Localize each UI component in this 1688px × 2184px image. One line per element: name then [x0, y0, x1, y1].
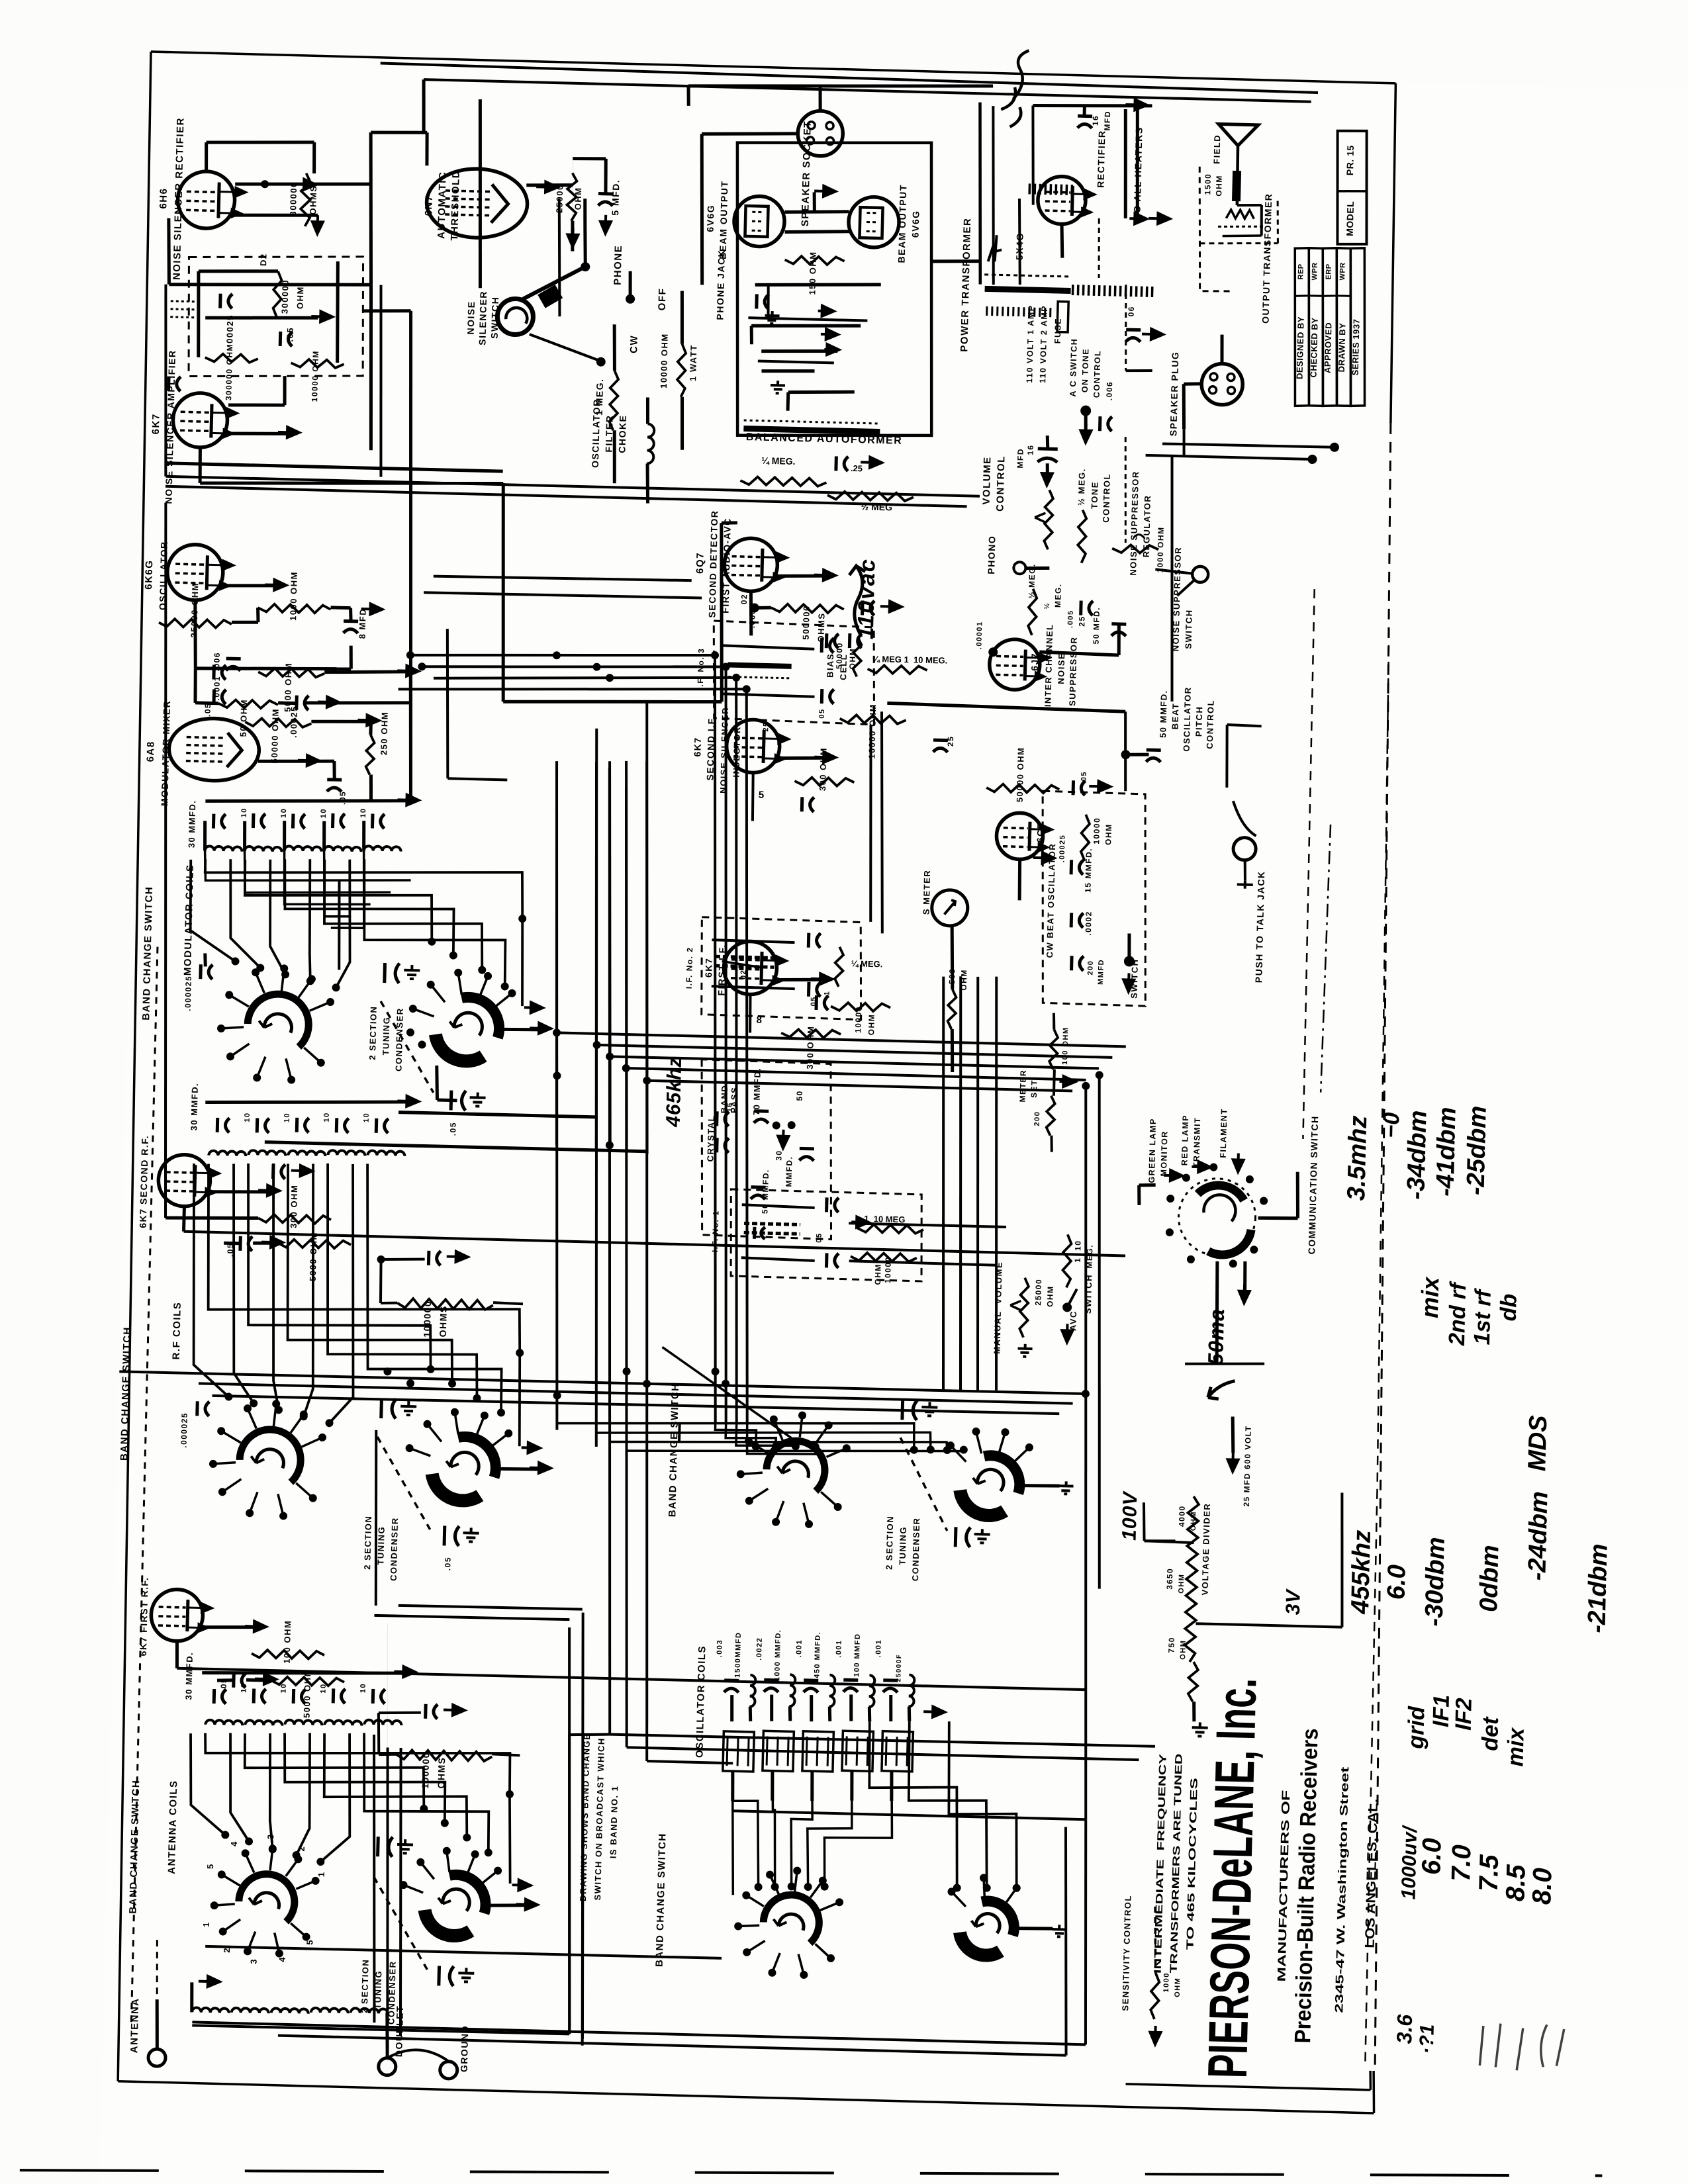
svg-text:10000: 10000 — [1092, 817, 1102, 844]
tube 6A8 modulator mixer — [168, 717, 259, 782]
svg-text:CONTROL: CONTROL — [1092, 350, 1103, 398]
svg-text:2: 2 — [222, 1948, 232, 1953]
resistor 100000 OHMS RF — [427, 1251, 431, 1265]
svg-text:OHM: OHM — [295, 286, 306, 309]
svg-text:BEAT: BEAT — [1170, 703, 1180, 730]
coupling dots — [170, 301, 197, 318]
svg-text:D2: D2 — [258, 253, 268, 266]
wire — [167, 218, 170, 285]
svg-text:RED LAMP: RED LAMP — [1180, 1115, 1190, 1166]
svg-text:.005: .005 — [1066, 610, 1075, 628]
output transformer windings — [1226, 210, 1254, 219]
resistor 5000 OHM — [271, 1676, 344, 1686]
wires osc coils to switch — [732, 1771, 733, 1801]
wire — [717, 523, 726, 702]
svg-text:10: 10 — [323, 1112, 331, 1122]
vertical bus bundle mid2 — [696, 655, 734, 1423]
svg-text:OHMS: OHMS — [438, 1305, 449, 1337]
rotary switch antenna section 1 — [238, 1874, 295, 1922]
svg-text:50 MMFD.: 50 MMFD. — [760, 1169, 771, 1214]
wire — [258, 760, 311, 762]
svg-text:10000: 10000 — [853, 1006, 863, 1033]
modulator coils row — [205, 846, 242, 851]
svg-text:NOISE: NOISE — [1056, 653, 1066, 684]
svg-text:10: 10 — [359, 807, 367, 818]
trimmer mid — [900, 1400, 904, 1420]
svg-text:OHM: OHM — [1179, 1640, 1188, 1660]
resistor 50000 OHM right — [986, 784, 1059, 794]
handwriting faint dashes bottom right — [1479, 2023, 1564, 2071]
resistor 25000 OHM — [567, 173, 577, 220]
svg-text:.001: .001 — [874, 1639, 883, 1658]
resistor 1 10 MEG — [857, 1224, 923, 1234]
IF1 coils — [742, 1205, 815, 1208]
svg-text:200: 200 — [1033, 1111, 1042, 1126]
resistor 300 OHM — [781, 1029, 841, 1038]
wire — [1185, 1362, 1264, 1366]
svg-text:OHM: OHM — [1190, 1511, 1198, 1531]
svg-text:OHM: OHM — [1103, 823, 1113, 845]
svg-text:RECTIFIER: RECTIFIER — [1095, 130, 1107, 188]
resistor 50 OHM + cap .00025 — [218, 700, 278, 709]
svg-text:INTER CHANNEL: INTER CHANNEL — [1043, 623, 1055, 707]
svg-text:50: 50 — [795, 1090, 804, 1101]
svg-text:FILAMENT: FILAMENT — [1219, 1108, 1229, 1158]
svg-text:ANTENNA: ANTENNA — [128, 1997, 141, 2053]
svg-text:CW: CW — [628, 335, 640, 353]
heater bus — [1126, 370, 1152, 371]
svg-text:10: 10 — [280, 1683, 288, 1694]
svg-text:-30dbm: -30dbm — [1421, 1537, 1450, 1627]
field coil winding — [1232, 171, 1241, 201]
svg-text:OFF: OFF — [657, 288, 669, 311]
capacitor — [167, 377, 171, 391]
trimmer condenser antenna — [376, 1837, 380, 1856]
IF3 to IF2 verticals — [866, 725, 875, 922]
svg-text:¼ MEG.: ¼ MEG. — [851, 958, 883, 969]
svg-text:APPROVED: APPROVED — [1323, 322, 1334, 373]
svg-text:.05: .05 — [338, 791, 348, 805]
svg-text:WPR: WPR — [1338, 262, 1347, 280]
staircase fan modulator — [204, 850, 411, 886]
svg-text:.003: .003 — [716, 1639, 724, 1658]
power secondary hatch — [1028, 183, 1031, 194]
svg-text:OHM: OHM — [848, 648, 858, 670]
wire — [503, 696, 722, 707]
svg-text:30 MMFD.: 30 MMFD. — [183, 1652, 195, 1700]
svg-text:grid: grid — [1403, 1706, 1430, 1750]
cap .25 — [933, 739, 948, 743]
svg-text:MFD: MFD — [1015, 448, 1025, 469]
dashed noise-silencer box — [186, 252, 365, 380]
svg-text:6V6G: 6V6G — [910, 210, 921, 238]
svg-text:PHONE: PHONE — [612, 245, 624, 285]
capacitor .05 + arrow — [327, 778, 342, 782]
svg-text:10: 10 — [320, 808, 328, 819]
svg-text:IF2: IF2 — [1451, 1698, 1477, 1731]
svg-text:REP: REP — [1297, 263, 1305, 279]
wire — [630, 271, 631, 299]
svg-text:465khz: 465khz — [663, 1056, 686, 1128]
svg-text:PR. 15: PR. 15 — [1344, 145, 1356, 175]
rotary switch mid section 2 — [983, 1455, 1020, 1494]
svg-text:MFD: MFD — [1103, 111, 1113, 131]
svg-text:CHOKE: CHOKE — [616, 414, 628, 453]
svg-text:50000 OHM: 50000 OHM — [269, 708, 281, 764]
resistor 1 MEG — [609, 371, 618, 430]
wire 3V — [1196, 1623, 1342, 1627]
mid horizontal buses group1 — [557, 1032, 1126, 1046]
svg-text:OSCILLATOR: OSCILLATOR — [157, 541, 169, 610]
svg-text:5: 5 — [305, 1940, 314, 1945]
svg-text:100000: 100000 — [422, 1300, 433, 1338]
capacitor .0001 — [212, 665, 216, 680]
svg-text:1 WATT: 1 WATT — [688, 344, 698, 381]
svg-text:-34dbm: -34dbm — [1402, 1110, 1432, 1200]
wires from coils down to switch pair 1 — [204, 859, 524, 919]
resistor half MEG — [740, 477, 826, 486]
svg-text:PIERSON-DeLANE, Inc.: PIERSON-DeLANE, Inc. — [1196, 1677, 1268, 2079]
svg-text:455khz: 455khz — [1346, 1529, 1376, 1615]
svg-text:SWITCH: SWITCH — [1183, 609, 1194, 649]
1 10 MEG resistor — [1062, 1234, 1072, 1287]
svg-text:SUPPRESSOR: SUPPRESSOR — [1067, 636, 1079, 706]
svg-text:15 MMFD.: 15 MMFD. — [1083, 848, 1094, 893]
svg-text:30: 30 — [774, 1150, 783, 1161]
wire — [426, 132, 428, 165]
svg-text:16: 16 — [1091, 114, 1100, 126]
svg-text:50 MMFD.: 50 MMFD. — [1158, 690, 1169, 738]
svg-text:8.5: 8.5 — [1501, 1864, 1530, 1901]
svg-text:2 SECTION: 2 SECTION — [884, 1516, 895, 1570]
svg-text:25000 OHM: 25000 OHM — [189, 582, 200, 638]
svg-text:NOISE SILENCER: NOISE SILENCER — [718, 707, 730, 794]
svg-text:THRESHOLD: THRESHOLD — [449, 170, 462, 241]
bottom right vertical — [1068, 1086, 1103, 1819]
svg-text:OHM: OHM — [1214, 175, 1224, 197]
svg-text:30 MMFD.: 30 MMFD. — [189, 1083, 200, 1131]
svg-text:OHM: OHM — [867, 1014, 876, 1036]
svg-text:OHM: OHM — [873, 1263, 883, 1285]
wires to middle switch — [678, 1424, 681, 1441]
svg-text:05: 05 — [815, 1232, 823, 1243]
wire verticals top mid — [475, 99, 485, 288]
resistor 10000 OHM IF1 — [851, 1252, 917, 1261]
wire stubs with dots — [1162, 443, 1335, 447]
svg-text:16: 16 — [1026, 444, 1035, 455]
tube 6K7 second IF noise silencer injector — [726, 719, 780, 774]
resistor 50000 OHM — [245, 718, 311, 727]
svg-text:5000 OHM: 5000 OHM — [283, 662, 294, 712]
svg-text:FIELD: FIELD — [1211, 134, 1222, 164]
svg-text:3.6: 3.6 — [1392, 2014, 1417, 2044]
svg-text:5 MFD.: 5 MFD. — [610, 179, 621, 216]
svg-text:.0022: .0022 — [755, 1637, 764, 1660]
svg-text:OHMS: OHMS — [308, 185, 318, 214]
resistor 300000 OHM — [273, 271, 282, 318]
svg-text:100V: 100V — [1119, 1490, 1142, 1541]
vertical wire x676 — [444, 629, 451, 778]
resistor 10000 OHM — [291, 359, 344, 368]
switch lever to PHONE — [523, 267, 583, 300]
svg-text:10000 OHM: 10000 OHM — [310, 350, 320, 402]
IF No.2 coils — [712, 940, 794, 942]
svg-text:OHM: OHM — [1178, 1573, 1186, 1593]
more junction dots — [553, 1071, 561, 1079]
wire — [976, 103, 985, 285]
svg-text:METER: METER — [1018, 1069, 1028, 1103]
bus horizontals mid — [399, 1113, 596, 1117]
svg-text:SPEAKER PLUG: SPEAKER PLUG — [1168, 351, 1180, 436]
svg-text:50 MFD.: 50 MFD. — [1092, 607, 1102, 645]
power area verticals — [989, 106, 998, 285]
trimmer condenser — [383, 963, 387, 983]
junction dots — [406, 651, 414, 659]
svg-text:AUTOMATIC: AUTOMATIC — [436, 171, 448, 239]
tube 6K6G oscillator — [167, 544, 224, 601]
crystal — [715, 1111, 719, 1126]
trimmer condenser RF — [379, 1398, 383, 1418]
svg-text:OHM: OHM — [1045, 1285, 1055, 1307]
resistor 150 OHM — [784, 255, 844, 265]
capacitor + resistor 300 OHM — [271, 1164, 275, 1179]
svg-text:4: 4 — [277, 1957, 287, 1962]
svg-text:05: 05 — [818, 708, 826, 719]
svg-text:MMFD: MMFD — [1097, 959, 1105, 985]
svg-text:6.0: 6.0 — [1417, 1838, 1446, 1876]
svg-text:.05: .05 — [443, 1557, 453, 1571]
svg-text:8 MFD: 8 MFD — [357, 608, 367, 639]
svg-text:TUNING: TUNING — [381, 1017, 391, 1056]
svg-text:CONTROL: CONTROL — [1205, 700, 1216, 749]
middle vertical buses — [540, 761, 573, 1430]
svg-text:¼ MEG.: ¼ MEG. — [761, 455, 796, 467]
wire web top area — [376, 285, 385, 477]
push to talk jack — [1233, 837, 1256, 860]
svg-text:6K7 FIRST R.F.: 6K7 FIRST R.F. — [138, 1576, 150, 1656]
bus wires — [380, 63, 1318, 93]
wire — [951, 925, 954, 989]
long verticals right-mid — [933, 977, 953, 1390]
svg-text:50000: 50000 — [835, 642, 845, 669]
svg-text:-21dbm: -21dbm — [1583, 1543, 1613, 1633]
IF No.3 coils — [723, 645, 814, 649]
svg-text:6Q7: 6Q7 — [694, 552, 706, 574]
svg-text:1: 1 — [316, 1872, 326, 1878]
svg-text:S METER: S METER — [921, 870, 933, 915]
svg-text:10: 10 — [320, 1683, 328, 1694]
resistor 300000 OHMS — [301, 173, 311, 226]
svg-text:CHECKED BY: CHECKED BY — [1309, 317, 1320, 377]
svg-text:BEAM OUTPUT: BEAM OUTPUT — [896, 184, 909, 263]
svg-text:.001: .001 — [835, 1639, 843, 1658]
svg-text:3V: 3V — [1282, 1588, 1305, 1615]
tube 6K7 noise silencer amplifier — [172, 392, 228, 448]
resistor half MEG 2 — [827, 491, 914, 501]
svg-text:PHONO: PHONO — [986, 535, 997, 574]
svg-text:1500: 1500 — [1203, 173, 1213, 195]
svg-text:.00025: .00025 — [1058, 834, 1067, 862]
tube 6J7 inter channel noise suppressor — [989, 639, 1041, 690]
title block border — [1126, 2084, 1371, 2090]
svg-text:I.F. No. 2: I.F. No. 2 — [684, 946, 695, 989]
misc connect — [647, 1761, 733, 1763]
svg-text:8.0: 8.0 — [1527, 1868, 1557, 1905]
svg-text:70 MMFD.: 70 MMFD. — [751, 1067, 763, 1115]
wire — [182, 1206, 186, 1232]
svg-text:.000025: .000025 — [183, 976, 193, 1011]
IF transformer No.3 dashed box — [712, 621, 877, 725]
svg-text:OHM: OHM — [1174, 1977, 1182, 1997]
svg-text:.05: .05 — [203, 703, 213, 717]
svg-text:1000 MMFD.: 1000 MMFD. — [773, 1629, 782, 1681]
wires fan mid switch — [660, 1347, 798, 1441]
svg-text:½: ½ — [1043, 602, 1051, 610]
svg-text:0dbm: 0dbm — [1475, 1545, 1504, 1612]
svg-text:300000 OHM: 300000 OHM — [224, 343, 234, 401]
osc switch right fan — [866, 1721, 961, 1888]
svg-text:OHM: OHM — [573, 187, 583, 210]
svg-text:2 SECTION: 2 SECTION — [359, 1959, 371, 2013]
tube 6K7 second RF — [158, 1154, 211, 1207]
svg-text:450 MMFD.: 450 MMFD. — [813, 1631, 822, 1678]
svg-text:3650: 3650 — [1165, 1568, 1175, 1590]
wire — [784, 210, 849, 213]
svg-text:2: 2 — [297, 1846, 306, 1852]
svg-text:WPR: WPR — [1311, 262, 1319, 280]
noise silencer switch — [497, 298, 534, 335]
svg-text:7.0: 7.0 — [1446, 1844, 1476, 1882]
svg-text:100000: 100000 — [420, 1752, 431, 1789]
svg-text:25 MFD 600 VOLT: 25 MFD 600 VOLT — [1242, 1425, 1253, 1506]
horizontals joining — [410, 648, 715, 662]
balanced autoformer bar — [743, 426, 880, 435]
svg-text:ANTENNA COILS: ANTENNA COILS — [166, 1780, 179, 1874]
svg-text:TUNING: TUNING — [898, 1526, 908, 1565]
antenna coils bottom row — [192, 2007, 229, 2013]
capacitor .00025 — [218, 294, 222, 308]
svg-text:3: 3 — [249, 1959, 259, 1964]
svg-text:-25dbm: -25dbm — [1462, 1105, 1491, 1195]
svg-text:10: 10 — [359, 1683, 367, 1694]
svg-text:300 OHM: 300 OHM — [818, 747, 829, 791]
svg-text:06: 06 — [1127, 306, 1136, 317]
wire — [777, 574, 827, 577]
svg-text:1st rf: 1st rf — [1470, 1287, 1496, 1345]
svg-text:MODEL: MODEL — [1344, 201, 1356, 236]
svg-text:.0002: .0002 — [1084, 911, 1094, 936]
IF No.1 dashed box — [729, 1189, 923, 1281]
fuse box — [1057, 302, 1068, 332]
fold dashed lines — [1301, 589, 1316, 1139]
svg-text:2 SECTION: 2 SECTION — [362, 1515, 373, 1569]
svg-text:30 MMFD.: 30 MMFD. — [187, 799, 198, 848]
resistor 50000 OHM — [853, 637, 861, 676]
capacitor .05 — [212, 690, 216, 704]
svg-text:200: 200 — [1086, 960, 1095, 975]
svg-text:50000 OHM: 50000 OHM — [1015, 747, 1026, 802]
svg-text:10: 10 — [280, 807, 288, 818]
svg-text:det: det — [1477, 1715, 1503, 1751]
S meter — [931, 889, 968, 926]
audio output box — [730, 138, 939, 440]
rotary switch modulator section 2 — [461, 997, 500, 1038]
svg-text:CONTROL: CONTROL — [994, 455, 1007, 512]
svg-text:2nd rf: 2nd rf — [1444, 1280, 1471, 1346]
svg-text:110 VOLT 2 AMP: 110 VOLT 2 AMP — [1038, 305, 1049, 384]
svg-text:10: 10 — [240, 807, 248, 818]
resistor 10000 OHM 1 WATT — [677, 344, 686, 397]
svg-text:MEG.: MEG. — [1053, 583, 1063, 608]
beat osc components — [1081, 815, 1090, 861]
resistor quarter meg — [835, 947, 843, 987]
svg-text:TONE: TONE — [1090, 481, 1100, 509]
wire — [205, 796, 410, 806]
border frame — [151, 52, 1395, 83]
svg-text:3.5mhz: 3.5mhz — [1342, 1115, 1372, 1201]
wire — [197, 271, 201, 357]
rotary switch osc section 2 — [981, 1901, 1015, 1935]
svg-text:6J7: 6J7 — [1029, 653, 1041, 671]
svg-text:½ MEG.: ½ MEG. — [1076, 468, 1087, 506]
svg-text:10: 10 — [363, 1113, 371, 1123]
svg-text:NOISE: NOISE — [465, 300, 477, 334]
resistor 250 OHM — [365, 735, 374, 774]
wires from comm switch — [1258, 1217, 1298, 1218]
svg-text:750: 750 — [1166, 1637, 1176, 1653]
speaker socket — [797, 111, 843, 157]
svg-text:PHONE JACK: PHONE JACK — [714, 250, 727, 320]
resistor 5000 OHM — [278, 1239, 351, 1249]
svg-text:250 OHM: 250 OHM — [379, 711, 390, 755]
title block — [1291, 248, 1313, 406]
svg-text:2 SECTION: 2 SECTION — [367, 1005, 379, 1060]
resistor 25000 OHM — [159, 619, 232, 629]
IF transformer No.2 dashed box — [700, 917, 864, 1020]
wires coils to switch pair 3 — [204, 1733, 511, 1794]
svg-text:.25: .25 — [851, 463, 863, 473]
svg-text:.000025: .000025 — [179, 1412, 189, 1448]
svg-text:4: 4 — [229, 1841, 239, 1846]
svg-text:50ma: 50ma — [1203, 1308, 1229, 1365]
svg-text:MONITOR: MONITOR — [1159, 1130, 1170, 1177]
svg-text:CONDENSER: CONDENSER — [394, 1007, 405, 1071]
tube 6H6 noise silencer rectifier — [177, 171, 236, 229]
wire y1845 — [849, 1223, 1006, 1227]
resistor 1000 OHM — [258, 604, 330, 614]
wire — [206, 142, 207, 171]
tube 6N7 automatic threshold — [426, 167, 528, 239]
oscillator coil fan — [730, 1771, 761, 1887]
CW beat oscillator dashed box — [1037, 791, 1150, 1006]
transformer dashed wires — [1199, 242, 1278, 246]
svg-text:db: db — [1496, 1293, 1522, 1321]
svg-text:10000 OHM: 10000 OHM — [659, 333, 670, 388]
svg-text:25: 25 — [946, 735, 955, 747]
svg-text:6N7: 6N7 — [423, 195, 435, 216]
svg-text:1 10: 1 10 — [1073, 1240, 1083, 1263]
svg-text:25: 25 — [1077, 615, 1086, 627]
communication switch rotary — [1197, 1185, 1244, 1201]
svg-text:DRAWN BY: DRAWN BY — [1336, 322, 1348, 372]
svg-text:1: 1 — [823, 990, 831, 995]
wire — [1061, 225, 1063, 258]
resistor 500000 OHMS — [771, 604, 844, 614]
tube 6K7 first IF — [724, 941, 778, 995]
crystal band pass dashed box — [698, 1060, 835, 1240]
autoformer windings — [755, 281, 881, 288]
resistor 10000 OHM — [831, 1002, 890, 1011]
